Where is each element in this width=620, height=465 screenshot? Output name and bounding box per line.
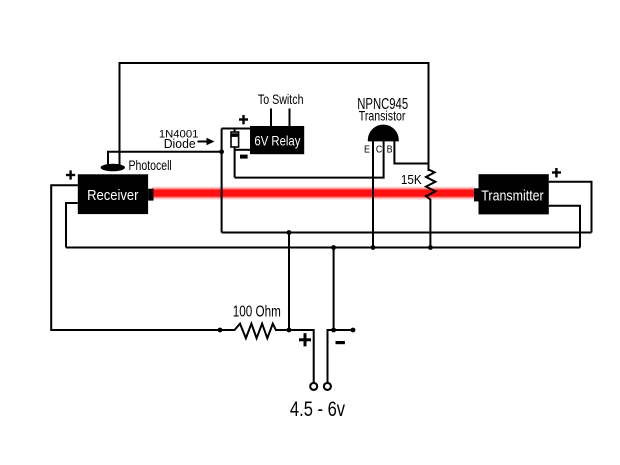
wire ground rail <box>66 247 580 249</box>
node positive rail tap <box>287 230 292 235</box>
svg-text:15K: 15K <box>401 173 423 188</box>
diode D1 bottom lead <box>234 147 236 178</box>
label 100 Ohm <box>233 302 281 320</box>
battery plus sign <box>299 333 311 346</box>
svg-text:To Switch: To Switch <box>258 92 304 108</box>
laser beam <box>152 186 475 201</box>
arrow to diode <box>198 138 215 146</box>
relay minus sign <box>240 155 248 159</box>
wire receiver plus to 100 Ohm <box>51 185 221 330</box>
label NPNC945 <box>357 95 408 112</box>
node resistor left <box>218 328 223 333</box>
svg-text:4.5 - 6v: 4.5 - 6v <box>290 398 346 422</box>
svg-text:Transmitter: Transmitter <box>481 188 544 204</box>
node ground battery <box>331 245 336 250</box>
transmitter plus sign <box>552 168 561 177</box>
svg-text:B: B <box>387 144 393 156</box>
wire transmitter ground <box>549 206 580 248</box>
label 4.5 - 6v <box>290 398 346 422</box>
svg-text:Photocell: Photocell <box>129 158 172 174</box>
wire photocell left lead <box>108 152 221 165</box>
node minus stub end <box>351 328 356 333</box>
battery minus sign <box>336 341 345 344</box>
resistor R1 15K zigzag <box>426 170 435 248</box>
pin label E <box>364 144 370 156</box>
label 1N4001 <box>159 129 199 141</box>
node battery minus tap <box>331 328 336 333</box>
svg-text:100 Ohm: 100 Ohm <box>233 302 281 320</box>
wire to relay plus <box>222 128 250 130</box>
transistor Q1 emitter leg <box>372 141 374 248</box>
wire transmitter plus <box>549 182 592 233</box>
wire receiver bottom to ground rail <box>66 203 78 248</box>
battery plus terminal <box>310 383 317 390</box>
wire top-right drop to 15K <box>428 62 430 171</box>
wire node A vertical <box>221 129 223 233</box>
node resistor right <box>287 328 292 333</box>
node ground 15K <box>428 245 433 250</box>
wire battery minus vertical <box>328 248 334 383</box>
wire switch lead right <box>289 109 291 127</box>
wire top rail <box>120 62 429 64</box>
svg-text:Receiver: Receiver <box>87 188 139 204</box>
transmitter box <box>474 174 549 214</box>
wire diode to transistor collector <box>235 140 384 178</box>
transistor Q1 base leg <box>394 141 428 164</box>
svg-text:Transistor: Transistor <box>359 108 406 124</box>
wire positive rail <box>222 232 592 234</box>
wire to battery plus <box>289 330 314 382</box>
receiver plus sign <box>66 170 75 179</box>
svg-text:6V Relay: 6V Relay <box>254 132 301 148</box>
svg-text:Diode: Diode <box>164 137 196 151</box>
label 15K <box>401 173 423 188</box>
diode D1 cathode band <box>231 133 239 137</box>
receiver box <box>78 174 154 214</box>
relay plus sign <box>239 115 248 124</box>
battery minus terminal <box>324 383 331 390</box>
wire minus stub <box>334 329 353 331</box>
node A junction <box>219 149 224 154</box>
diode D1 body <box>231 132 239 147</box>
label Photocell <box>129 158 172 174</box>
transistor Q1 dome <box>368 125 399 142</box>
relay K1 <box>250 126 304 154</box>
diode D1 top lead <box>234 129 236 133</box>
pin label B <box>387 144 393 156</box>
label To Switch <box>258 92 304 108</box>
wire positive rail to battery plus <box>288 233 290 331</box>
node ground emitter <box>371 245 376 250</box>
wire top-left drop to photocell <box>119 62 121 165</box>
wire diode to relay minus <box>235 149 250 151</box>
svg-text:E: E <box>364 144 370 156</box>
pin label C <box>376 144 382 156</box>
svg-text:C: C <box>376 144 382 156</box>
wire switch lead left <box>270 109 272 127</box>
label Transistor <box>359 108 406 124</box>
label Diode <box>164 137 196 151</box>
resistor R2 100 Ohm zigzag <box>221 324 289 339</box>
photocell <box>101 164 125 172</box>
